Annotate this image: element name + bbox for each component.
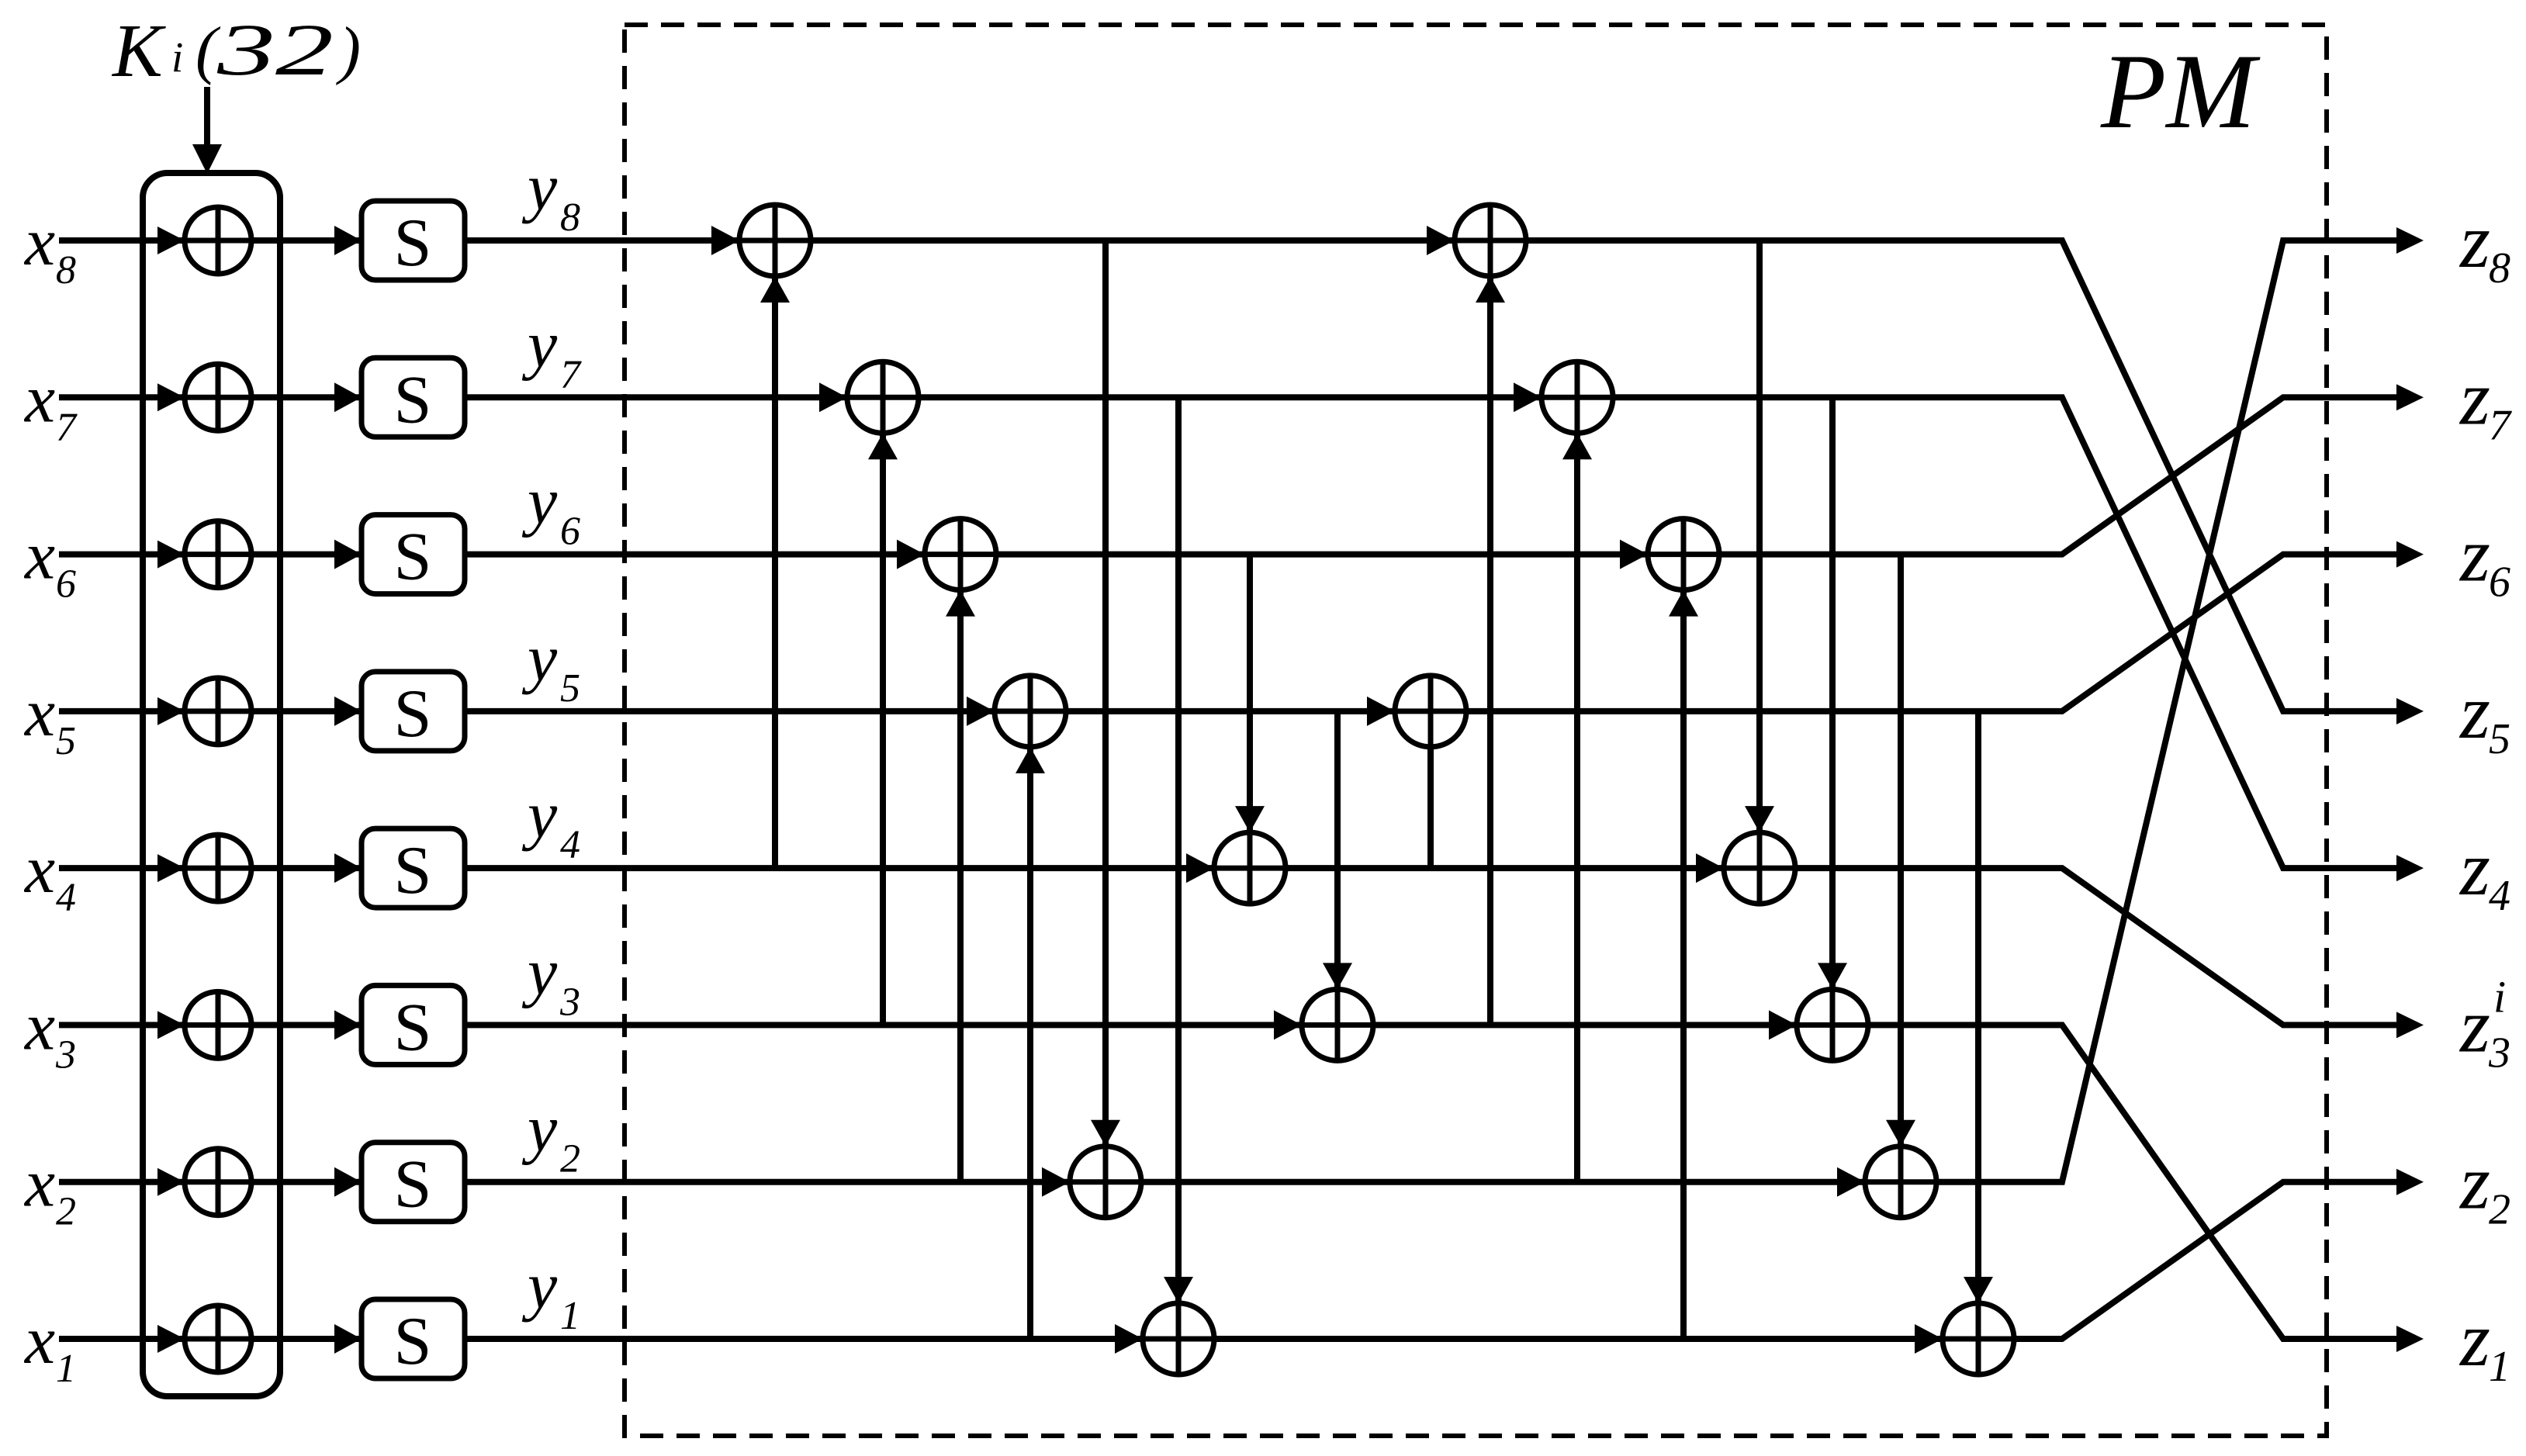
svg-text:i: i bbox=[171, 33, 183, 81]
svg-text:4: 4 bbox=[2489, 872, 2510, 920]
svg-text:PM: PM bbox=[2100, 32, 2261, 150]
svg-text:2: 2 bbox=[2489, 1186, 2510, 1234]
svg-text:K: K bbox=[111, 9, 166, 92]
svg-text:z: z bbox=[2459, 669, 2490, 755]
svg-text:z: z bbox=[2459, 512, 2490, 598]
svg-text:z: z bbox=[2459, 1140, 2490, 1226]
svg-text:x: x bbox=[23, 1146, 55, 1222]
svg-text:z: z bbox=[2459, 982, 2490, 1068]
svg-text:): ) bbox=[336, 14, 361, 86]
svg-text:x: x bbox=[23, 989, 55, 1064]
svg-text:y: y bbox=[521, 777, 558, 852]
svg-text:2: 2 bbox=[560, 1137, 580, 1181]
svg-text:S: S bbox=[394, 833, 432, 908]
svg-text:3: 3 bbox=[559, 980, 580, 1024]
svg-text:i: i bbox=[2493, 971, 2506, 1022]
svg-text:y: y bbox=[521, 464, 558, 538]
svg-text:S: S bbox=[394, 1147, 432, 1223]
svg-text:7: 7 bbox=[56, 405, 78, 449]
svg-text:S: S bbox=[394, 990, 432, 1065]
svg-text:8: 8 bbox=[560, 195, 580, 240]
svg-text:z: z bbox=[2459, 1296, 2490, 1382]
svg-text:x: x bbox=[23, 205, 55, 280]
svg-text:4: 4 bbox=[560, 823, 580, 867]
svg-text:5: 5 bbox=[2489, 715, 2510, 763]
svg-text:S: S bbox=[394, 206, 432, 281]
svg-text:3: 3 bbox=[55, 1032, 76, 1077]
svg-text:x: x bbox=[23, 832, 55, 908]
svg-text:x: x bbox=[23, 519, 55, 594]
svg-text:y: y bbox=[521, 150, 558, 224]
svg-text:y: y bbox=[521, 306, 558, 381]
svg-text:S: S bbox=[394, 1304, 432, 1379]
svg-text:5: 5 bbox=[56, 719, 76, 763]
svg-text:7: 7 bbox=[2489, 401, 2512, 449]
svg-text:1: 1 bbox=[2489, 1343, 2510, 1391]
svg-text:1: 1 bbox=[560, 1294, 580, 1338]
svg-text:y: y bbox=[521, 934, 558, 1008]
svg-text:y: y bbox=[521, 621, 558, 695]
svg-text:6: 6 bbox=[56, 562, 76, 607]
svg-text:z: z bbox=[2459, 825, 2490, 911]
svg-text:y: y bbox=[521, 1248, 558, 1323]
svg-text:S: S bbox=[394, 520, 432, 595]
svg-text:z: z bbox=[2459, 198, 2490, 284]
svg-text:y: y bbox=[521, 1091, 558, 1166]
svg-text:4: 4 bbox=[56, 876, 76, 920]
svg-text:6: 6 bbox=[560, 510, 580, 554]
svg-text:S: S bbox=[394, 676, 432, 752]
svg-text:5: 5 bbox=[560, 666, 580, 711]
svg-text:2: 2 bbox=[56, 1190, 76, 1234]
svg-text:8: 8 bbox=[2489, 244, 2510, 292]
svg-text:S: S bbox=[394, 362, 432, 437]
svg-text:3: 3 bbox=[2488, 1029, 2510, 1077]
svg-text:x: x bbox=[23, 676, 55, 751]
svg-text:32: 32 bbox=[216, 9, 334, 91]
svg-text:6: 6 bbox=[2489, 559, 2510, 607]
svg-text:7: 7 bbox=[560, 352, 582, 396]
svg-text:x: x bbox=[23, 361, 55, 437]
svg-text:8: 8 bbox=[56, 248, 76, 292]
svg-text:1: 1 bbox=[56, 1347, 76, 1391]
svg-text:z: z bbox=[2459, 354, 2490, 441]
svg-text:x: x bbox=[23, 1303, 55, 1378]
